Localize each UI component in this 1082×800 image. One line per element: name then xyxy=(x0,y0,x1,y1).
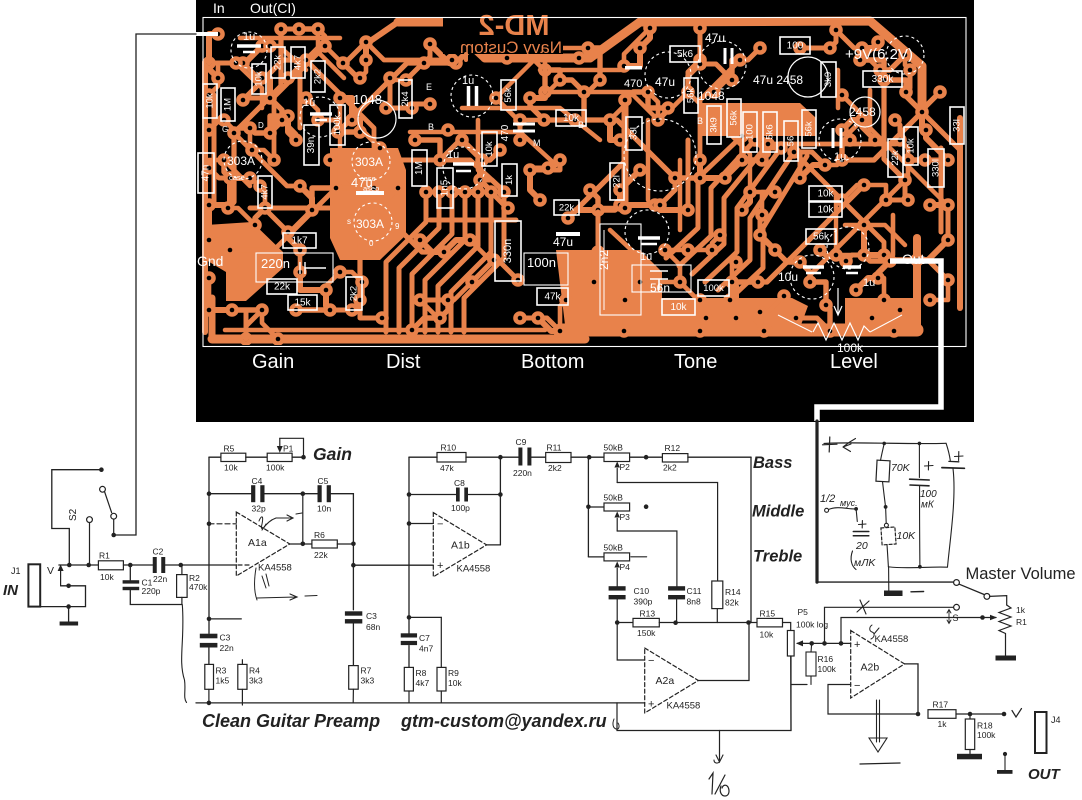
svg-text:KA4558: KA4558 xyxy=(667,701,701,712)
svg-text:303A: 303A xyxy=(356,217,384,231)
svg-text:R14: R14 xyxy=(725,587,741,597)
wire Bass line vertical xyxy=(750,457,752,622)
wire A1a left bus xyxy=(208,457,210,633)
svg-text:4k7: 4k7 xyxy=(293,55,304,70)
hand-drawn supply sketch xyxy=(824,442,946,445)
svg-text:3k3: 3k3 xyxy=(249,676,263,686)
PCB cap 2n2 xyxy=(600,224,641,315)
PCB resistor 1M xyxy=(412,150,427,186)
svg-text:100k: 100k xyxy=(703,283,724,294)
svg-text:gtm-custom@yandex.ru: gtm-custom@yandex.ru xyxy=(400,711,607,731)
svg-text:R7: R7 xyxy=(361,666,372,676)
svg-text:100k log: 100k log xyxy=(796,620,828,630)
PCB cap 1u xyxy=(638,236,660,240)
PCB transistor outline xyxy=(354,203,392,241)
wire input to A1a xyxy=(181,564,236,566)
svg-text:A2b: A2b xyxy=(861,662,880,674)
svg-text:10k: 10k xyxy=(670,302,687,313)
svg-text:1u: 1u xyxy=(243,31,255,43)
svg-text:R5: R5 xyxy=(224,444,235,454)
PCB resistor 22k xyxy=(888,139,903,177)
PCB resistor 330k xyxy=(928,149,944,187)
svg-text:10k: 10k xyxy=(906,138,917,154)
wire A2b feedback xyxy=(828,685,918,715)
PCB cap 1u xyxy=(843,265,861,269)
svg-text:B: B xyxy=(697,116,703,126)
wire to MV switch xyxy=(825,607,954,643)
PCB transistor outline xyxy=(850,97,880,127)
svg-text:470: 470 xyxy=(500,124,511,141)
svg-text:Out(CI): Out(CI) xyxy=(250,0,296,16)
PCB cap outline xyxy=(886,36,924,74)
PCB resistor 10k xyxy=(252,64,266,94)
PCB cap 10u xyxy=(803,265,824,269)
ground J1 xyxy=(68,607,70,622)
svg-text:0: 0 xyxy=(369,239,374,248)
svg-text:5k6: 5k6 xyxy=(765,124,776,139)
PCB cap 1n5 xyxy=(437,168,453,208)
svg-text:Out: Out xyxy=(902,251,925,267)
ground arrow below A2b xyxy=(877,700,880,742)
PCB cap 470 xyxy=(513,124,535,131)
svg-text:C3: C3 xyxy=(366,611,377,621)
PCB cap 1u central xyxy=(443,147,485,189)
capacitor C5 10n xyxy=(318,485,322,502)
svg-text:1k: 1k xyxy=(938,719,948,729)
capacitor C9 220n xyxy=(518,448,522,466)
wire R2 ground squiggle xyxy=(182,605,187,703)
PCB resistor 15k xyxy=(288,295,317,310)
PCB resistor 100k xyxy=(330,105,345,145)
PCB resistor 1M xyxy=(221,88,235,121)
PCB resistor 22k xyxy=(271,47,285,78)
PCB cap outline xyxy=(827,227,869,269)
svg-text:C5: C5 xyxy=(318,476,329,486)
PCB resistor 10k xyxy=(662,299,695,315)
PCB resistor 10k xyxy=(203,84,217,118)
svg-text:56k: 56k xyxy=(729,110,740,126)
svg-text:47n: 47n xyxy=(201,165,212,182)
resistor R11 2k2 xyxy=(546,453,571,463)
svg-text:22k: 22k xyxy=(559,203,575,214)
hand mark A2a xyxy=(613,719,619,729)
svg-text:KA4558: KA4558 xyxy=(258,563,292,574)
svg-text:8n8: 8n8 xyxy=(687,597,701,607)
PCB resistor 3k9 xyxy=(821,62,836,97)
PCB resistor 56k xyxy=(727,99,741,137)
svg-text:303A: 303A xyxy=(227,154,255,168)
svg-text:3k3: 3k3 xyxy=(361,676,375,686)
wire ground bus xyxy=(196,702,645,704)
svg-text:OUT: OUT xyxy=(1028,766,1062,783)
svg-text:Master Volume: Master Volume xyxy=(966,565,1076,583)
resistor R14 82k xyxy=(712,581,723,609)
capacitor C10 390p xyxy=(609,586,626,590)
wire output drop arrow xyxy=(719,731,721,761)
wire main input line xyxy=(59,564,99,566)
svg-text:22l: 22l xyxy=(612,175,623,188)
svg-text:47k: 47k xyxy=(440,463,454,473)
svg-text:22k: 22k xyxy=(273,55,284,71)
svg-text:1048: 1048 xyxy=(698,89,725,103)
PCB resistor 56k xyxy=(684,78,698,113)
svg-text:70K: 70K xyxy=(891,462,911,474)
PCB cap outline xyxy=(300,97,340,137)
resistor R1 10k xyxy=(98,561,123,570)
svg-text:47u 2458: 47u 2458 xyxy=(753,73,803,87)
svg-text:R6: R6 xyxy=(314,530,325,540)
PCB resistor 10k xyxy=(809,202,842,217)
svg-text:220p: 220p xyxy=(142,586,161,596)
potentiometer P2 50kB xyxy=(604,453,630,462)
potentiometer P4 50kB xyxy=(588,556,604,558)
svg-text:A1a: A1a xyxy=(248,537,267,549)
connector J1 input jack xyxy=(28,564,40,606)
svg-text:10k: 10k xyxy=(254,71,265,87)
svg-text:470k: 470k xyxy=(189,582,208,592)
svg-text:E: E xyxy=(426,82,432,92)
hand resistor 70K xyxy=(881,443,885,460)
hand battery xyxy=(946,443,950,460)
PCB resistor 22k xyxy=(554,200,579,215)
PCB cap outline xyxy=(625,210,669,254)
svg-text:303A: 303A xyxy=(355,155,383,169)
hand mark near A2b xyxy=(870,625,879,639)
svg-text:47u: 47u xyxy=(553,235,573,249)
wire from PCB In pad xyxy=(114,34,196,535)
PCB cap 47n xyxy=(198,153,214,193)
potentiometer R1 1k xyxy=(990,596,1007,605)
resistor R7 3k3 xyxy=(349,666,359,690)
resistor R18 100k xyxy=(969,714,971,719)
PCB transistor outline xyxy=(358,100,396,138)
PCB resistor 10k xyxy=(482,132,497,166)
svg-text:Treble: Treble xyxy=(753,548,802,566)
svg-text:+: + xyxy=(437,560,443,572)
PCB potentiometer Level 100k xyxy=(813,323,870,340)
resistor R9 10k xyxy=(409,616,441,618)
PCB cap 220n xyxy=(256,253,333,282)
svg-text:1k5: 1k5 xyxy=(216,676,230,686)
svg-text:C10: C10 xyxy=(634,586,650,596)
svg-text:9: 9 xyxy=(395,222,400,231)
svg-text:B: B xyxy=(428,122,434,132)
svg-text:1u: 1u xyxy=(462,75,474,87)
wire to R1 pot wiper xyxy=(841,618,996,644)
svg-text:1M: 1M xyxy=(223,98,234,111)
svg-text:1u: 1u xyxy=(640,251,652,263)
PCB cap 56n xyxy=(632,265,691,292)
svg-text:22k: 22k xyxy=(890,150,901,166)
PCB resistor 33 xyxy=(626,117,642,150)
switch S2 xyxy=(52,470,102,565)
svg-text:100p: 100p xyxy=(451,503,470,513)
PCB cap 47u xyxy=(725,48,732,64)
svg-text:10u: 10u xyxy=(778,270,798,284)
svg-text:1k: 1k xyxy=(504,175,515,185)
svg-text:C8: C8 xyxy=(454,478,465,488)
svg-text:1M: 1M xyxy=(414,161,425,175)
svg-text:Bass: Bass xyxy=(753,454,792,472)
svg-text:100: 100 xyxy=(920,489,937,500)
svg-text:47u: 47u xyxy=(655,75,675,89)
svg-text:10k: 10k xyxy=(205,93,216,109)
hand annotation arrow A1a xyxy=(262,513,302,530)
PCB resistor 100k xyxy=(698,280,729,296)
hand cap 100MK xyxy=(918,443,920,477)
svg-text:22k: 22k xyxy=(314,550,328,560)
switch Master Volume xyxy=(954,580,960,586)
svg-text:32p: 32p xyxy=(252,504,266,514)
wire P5 wiper to A2b xyxy=(804,642,851,644)
resistor R4 3k3 xyxy=(238,664,247,689)
hand ground xyxy=(888,567,890,591)
svg-text:+: + xyxy=(648,699,654,711)
capacitor C2 22n xyxy=(153,557,157,573)
PCB resistor 33 xyxy=(950,107,964,144)
ground output xyxy=(1003,752,1007,756)
PCB cap outline xyxy=(624,119,696,191)
svg-text:100k: 100k xyxy=(818,664,837,674)
svg-text:Gain: Gain xyxy=(313,444,352,464)
svg-text:R11: R11 xyxy=(547,443,562,453)
connector J4 output jack xyxy=(1035,712,1047,753)
resistor R8 4k7 xyxy=(404,667,413,691)
wire PCB In stub xyxy=(196,32,218,36)
svg-text:Dist: Dist xyxy=(386,351,421,373)
svg-text:M: M xyxy=(533,138,541,148)
PCB board photo block xyxy=(196,0,974,422)
PCB resistor 3k9 xyxy=(707,106,721,144)
svg-text:−: − xyxy=(648,655,654,667)
svg-text:10k: 10k xyxy=(760,630,774,640)
ground R18 xyxy=(957,754,982,760)
svg-text:R15: R15 xyxy=(760,609,776,619)
svg-text:P2: P2 xyxy=(620,462,631,472)
PCB cap outline xyxy=(231,32,267,68)
op-amp A1b KA4558 xyxy=(433,513,486,577)
PCB cap 1u xyxy=(310,112,332,116)
svg-text:100k: 100k xyxy=(977,730,996,740)
svg-text:330n: 330n xyxy=(502,239,514,263)
capacitor C7 4n7 xyxy=(401,633,417,637)
svg-text:1u: 1u xyxy=(303,97,315,109)
svg-text:56n: 56n xyxy=(650,281,670,295)
PCB resistor 4k7 xyxy=(258,176,272,208)
wire A2a output xyxy=(698,623,749,681)
PCB resistor 56k xyxy=(501,80,516,110)
svg-text:2458: 2458 xyxy=(849,105,876,119)
PCB resistor 10k xyxy=(809,186,842,201)
svg-text:P3: P3 xyxy=(620,512,631,522)
op-amp A2a KA4558 xyxy=(645,648,699,713)
svg-text:68n: 68n xyxy=(366,622,380,632)
wire A1b feedback bus xyxy=(408,457,410,635)
svg-text:R3: R3 xyxy=(216,666,227,676)
svg-text:+: + xyxy=(854,639,860,651)
resistor R12 2k2 xyxy=(662,454,688,462)
svg-text:R4: R4 xyxy=(249,666,260,676)
svg-text:case: case xyxy=(229,173,245,182)
svg-text:2k2: 2k2 xyxy=(349,286,360,301)
svg-text:1u: 1u xyxy=(863,277,875,289)
svg-text:In: In xyxy=(213,0,225,16)
PCB transistor outline xyxy=(788,57,828,97)
svg-text:82k: 82k xyxy=(725,598,739,608)
svg-text:C2: C2 xyxy=(153,547,164,557)
svg-text:R16: R16 xyxy=(818,654,834,664)
svg-text:22n: 22n xyxy=(153,574,167,584)
svg-text:KA4558: KA4558 xyxy=(457,564,491,575)
svg-text:330l: 330l xyxy=(931,159,942,177)
PCB resistor 4k7 xyxy=(291,47,305,78)
PCB cap 470 trimmer xyxy=(625,66,642,70)
svg-text:мЛK: мЛK xyxy=(854,557,876,569)
svg-text:220n: 220n xyxy=(261,256,290,271)
svg-text:IN: IN xyxy=(3,582,19,599)
svg-text:10K: 10K xyxy=(897,530,917,542)
wire PCB out to switch xyxy=(815,421,818,582)
wire P2 wiper to R14 xyxy=(617,483,717,582)
svg-text:100k: 100k xyxy=(266,463,285,473)
wire P3 wiper to C11 xyxy=(617,531,677,586)
svg-text:R12: R12 xyxy=(665,443,681,453)
svg-text:10k: 10k xyxy=(100,572,114,582)
PCB cap 1u xyxy=(469,86,477,106)
svg-text:Gnd: Gnd xyxy=(197,253,223,269)
svg-text:R18: R18 xyxy=(977,721,993,731)
PCB resistor 5k6 xyxy=(670,46,700,62)
wire A1b output feedback xyxy=(499,457,501,545)
svg-text:50kB: 50kB xyxy=(604,493,624,503)
svg-text:+9V(6.2V): +9V(6.2V) xyxy=(845,46,913,63)
svg-text:−: − xyxy=(437,519,443,531)
svg-text:2k2: 2k2 xyxy=(663,463,677,473)
svg-text:20: 20 xyxy=(855,540,868,552)
PCB resistor 5k6 xyxy=(763,112,777,152)
PCB resistor 330k xyxy=(863,71,902,87)
svg-text:15k: 15k xyxy=(294,298,311,309)
svg-text:case: case xyxy=(360,174,376,183)
wire PCB Out routing xyxy=(817,261,941,421)
svg-text:150k: 150k xyxy=(637,628,656,638)
svg-text:1k: 1k xyxy=(1016,605,1026,615)
svg-text:100: 100 xyxy=(787,41,804,52)
PCB cap outline xyxy=(790,255,834,299)
svg-text:R8: R8 xyxy=(416,668,427,678)
PCB transistor outline xyxy=(224,141,262,179)
PCB cap outline xyxy=(698,41,746,89)
svg-text:Level: Level xyxy=(830,351,878,373)
svg-text:5k6: 5k6 xyxy=(677,49,694,60)
svg-text:−: − xyxy=(854,680,860,692)
svg-text:10k: 10k xyxy=(484,141,495,157)
svg-text:56k: 56k xyxy=(804,121,815,137)
svg-text:50kB: 50kB xyxy=(604,543,624,553)
svg-text:Tone: Tone xyxy=(674,351,717,373)
svg-text:C11: C11 xyxy=(687,586,702,596)
PCB cap 100n xyxy=(524,253,568,285)
svg-text:10n: 10n xyxy=(317,504,331,514)
svg-text:100k: 100k xyxy=(332,114,343,135)
PCB border frame xyxy=(203,18,966,347)
PCB resistor 1k xyxy=(502,164,517,196)
svg-text:мК: мК xyxy=(921,500,935,511)
svg-text:P4: P4 xyxy=(620,562,631,572)
potentiometer P3 50kB xyxy=(587,457,589,557)
PCB resistor 100 xyxy=(743,112,757,152)
PCB white silkscreen xyxy=(224,32,924,299)
svg-text:C3: C3 xyxy=(220,633,231,643)
svg-text:B: B xyxy=(578,120,584,130)
svg-text:56k: 56k xyxy=(686,88,697,104)
resistor R17 1k xyxy=(928,710,956,719)
svg-text:S: S xyxy=(953,613,959,623)
potentiometer P5 100k log xyxy=(787,631,794,657)
svg-text:100: 100 xyxy=(745,124,756,140)
svg-text:мус.: мус. xyxy=(840,498,858,508)
svg-text:470: 470 xyxy=(624,78,642,90)
svg-text:4k7: 4k7 xyxy=(416,678,430,688)
PCB resistor 10k xyxy=(556,110,586,126)
PCB cap outline xyxy=(645,52,691,98)
PCB resistor 10k xyxy=(904,127,918,165)
svg-text:100n: 100n xyxy=(527,255,556,270)
svg-text:10k: 10k xyxy=(817,189,834,200)
potentiometer P1 100k xyxy=(267,453,292,461)
svg-text:R17: R17 xyxy=(933,700,949,710)
hand wire bottom xyxy=(888,566,947,569)
svg-text:R10: R10 xyxy=(441,443,457,453)
svg-text:C9: C9 xyxy=(516,437,527,447)
resistor R13 150k xyxy=(617,622,633,624)
resistor R5 10k xyxy=(209,456,221,458)
svg-text:S2: S2 xyxy=(68,508,79,521)
hand X mark xyxy=(857,600,869,614)
PCB resistor 100 xyxy=(780,37,810,54)
PCB cap 1u xyxy=(833,128,841,148)
svg-text:1u: 1u xyxy=(447,149,459,161)
svg-text:22k: 22k xyxy=(274,282,291,293)
svg-text:Navy Custom: Navy Custom xyxy=(460,38,562,57)
svg-text:Bottom: Bottom xyxy=(521,351,584,373)
svg-text:Middle: Middle xyxy=(752,503,804,521)
svg-text:P1: P1 xyxy=(283,444,294,454)
svg-text:R1: R1 xyxy=(99,551,110,561)
ground R1 xyxy=(1005,637,1007,656)
svg-text:10k: 10k xyxy=(817,205,834,216)
capacitor C6 68n xyxy=(345,611,362,615)
svg-text:3k9: 3k9 xyxy=(709,117,720,132)
svg-text:33l: 33l xyxy=(952,119,963,132)
svg-text:1k7: 1k7 xyxy=(291,236,308,247)
PCB resistor 22k xyxy=(267,279,297,294)
capacitor C3 22n xyxy=(200,634,218,639)
PCB cap 1u xyxy=(237,44,261,48)
PCB resistor 22 xyxy=(610,163,624,200)
svg-text:2k2: 2k2 xyxy=(548,463,562,473)
svg-text:56: 56 xyxy=(786,136,797,147)
svg-text:R1: R1 xyxy=(1016,617,1027,627)
wire J1 sleeve xyxy=(40,586,85,607)
PCB resistor 47k xyxy=(537,288,568,305)
PCB resistor 1k7 xyxy=(283,233,316,248)
svg-text:P5: P5 xyxy=(798,607,809,617)
svg-text:J1: J1 xyxy=(11,566,21,576)
svg-text:J4: J4 xyxy=(1051,715,1061,725)
svg-text:10k: 10k xyxy=(224,463,238,473)
svg-text:G: G xyxy=(222,125,228,134)
